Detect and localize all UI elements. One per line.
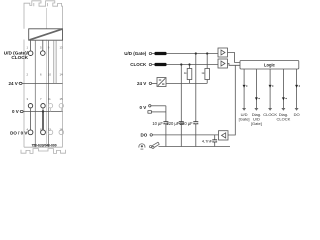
0V terminal <box>20 110 23 112</box>
drop line 5 <box>296 69 298 108</box>
bottom clamp circle col3 <box>48 130 53 135</box>
0V wire top <box>151 105 166 107</box>
CLOCK terminal <box>149 63 151 65</box>
svg-text:[Gate]: [Gate] <box>239 117 250 122</box>
svg-text:4,7nF: 4,7nF <box>202 139 213 144</box>
resistor R2 <box>206 54 208 84</box>
U/D line <box>167 53 219 55</box>
bottom clamp circle col4 <box>59 130 64 135</box>
svg-text:13: 13 <box>60 46 64 50</box>
rail contact symbol <box>150 142 160 148</box>
svg-text:220 µF: 220 µF <box>180 121 193 126</box>
module wire columns <box>34 40 36 147</box>
DO terminal <box>150 134 152 136</box>
DO line <box>152 134 218 136</box>
0V vertical <box>165 106 167 147</box>
svg-text:U/D (Gate): U/D (Gate) <box>124 51 147 56</box>
DC/DC converter <box>157 78 166 87</box>
drop line 1 <box>243 69 245 108</box>
bottom clamp circle col1 <box>28 130 33 135</box>
svg-text:10 µF: 10 µF <box>152 121 163 126</box>
svg-text:CLOCK: CLOCK <box>277 117 291 122</box>
pin numbers row3 <box>26 97 63 101</box>
module center divider <box>46 8 48 147</box>
DO branch col1 <box>30 112 32 130</box>
24V wire <box>22 82 63 84</box>
opto CLOCK <box>218 59 228 68</box>
0V row clamp circles <box>28 104 32 108</box>
wire to DC/DC <box>152 82 157 84</box>
marking box with diagonal <box>29 29 63 40</box>
clamp stem col1 top <box>30 40 32 51</box>
svg-text:Logic: Logic <box>264 62 276 67</box>
24V terminal <box>19 82 22 84</box>
0V terminal circle <box>149 105 151 107</box>
svg-text:10: 10 <box>48 72 52 76</box>
24V internal line <box>166 82 207 84</box>
V2 drop from U/D <box>195 54 197 147</box>
pin numbers row4 <box>26 127 63 131</box>
pin numbers row1 <box>26 46 63 50</box>
svg-text:0 V: 0 V <box>140 105 147 110</box>
opto DO <box>219 131 229 140</box>
cap 4.7nF drop <box>214 135 216 147</box>
svg-text:24 V: 24 V <box>137 81 146 86</box>
U/D wire to filter <box>152 53 155 55</box>
0V wire <box>23 111 63 113</box>
svg-text:15: 15 <box>60 97 64 101</box>
svg-text:CLOCK: CLOCK <box>11 55 28 60</box>
svg-text:0 V: 0 V <box>12 109 19 114</box>
logic box <box>240 61 299 70</box>
terminal circle 5 <box>41 51 46 56</box>
junction dot 0V col2 <box>42 110 44 112</box>
resistor R1 <box>189 65 191 84</box>
U/D terminal <box>149 52 151 54</box>
V1 drop from CLOCK <box>180 65 182 147</box>
CLOCK line <box>167 64 219 66</box>
pin numbers row2 <box>26 72 63 76</box>
svg-text:DO: DO <box>294 112 300 117</box>
svg-text:11: 11 <box>48 97 51 101</box>
svg-text:[Gate]: [Gate] <box>251 121 262 126</box>
svg-text:750-633/040-000: 750-633/040-000 <box>31 143 56 147</box>
clamp stem col2 top <box>42 40 44 51</box>
opto2 output wire <box>228 64 241 66</box>
bottom clamp circle col2 <box>41 130 46 135</box>
DO feed vertical <box>228 65 235 135</box>
svg-text:CLOCK: CLOCK <box>130 62 147 67</box>
drop line 3 <box>269 69 271 108</box>
terminal circle 1 <box>28 51 33 56</box>
CLOCK wire to filter <box>152 64 155 66</box>
module side edges <box>24 40 63 148</box>
DO branch col2 bold <box>42 112 44 130</box>
svg-text:12: 12 <box>48 127 52 131</box>
module bottom contour <box>21 147 66 153</box>
opto U/D <box>218 48 228 57</box>
bottom rail <box>159 146 231 148</box>
filter CLOCK <box>155 63 167 66</box>
module outline top contour <box>24 1 63 29</box>
svg-text:220 µF: 220 µF <box>166 121 179 126</box>
svg-text:14: 14 <box>60 72 64 76</box>
0V terminal square <box>148 111 152 114</box>
24V terminal right <box>149 82 151 84</box>
opto1 output wire <box>228 53 241 63</box>
drop line 4 <box>282 69 284 108</box>
drop labels <box>239 112 300 126</box>
svg-text:DO / 0 V: DO / 0 V <box>10 130 27 135</box>
filter U/D <box>155 52 167 55</box>
svg-text:CLOCK: CLOCK <box>263 112 277 117</box>
0V wire bottom <box>151 111 166 113</box>
drop line 2 <box>255 69 257 108</box>
earth circle symbol <box>139 144 145 149</box>
svg-text:DO: DO <box>141 133 148 138</box>
svg-text:24 V: 24 V <box>9 81 18 86</box>
svg-text:16: 16 <box>60 127 64 131</box>
